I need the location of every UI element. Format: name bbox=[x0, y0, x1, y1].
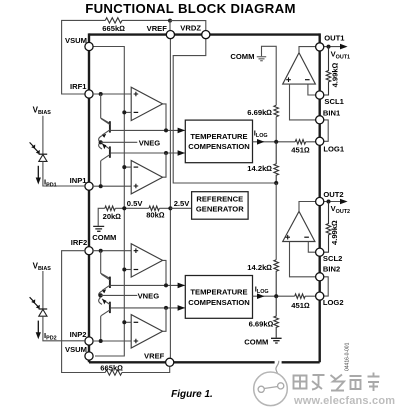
resistor R 14.2k (2) bbox=[274, 260, 279, 296]
svg-text:6.69kΩ: 6.69kΩ bbox=[247, 108, 272, 117]
chip outline bottom rail bbox=[89, 361, 320, 363]
node dot IRF1/Q1 collector bbox=[99, 92, 103, 96]
node dot INP1/Q2 collector bbox=[99, 184, 103, 188]
wire VRDZ down-left-down to intercept node bbox=[173, 39, 276, 183]
wire B2 output to OUT2 bbox=[299, 202, 316, 212]
watermark rail gap bbox=[275, 360, 282, 364]
svg-text:VSUM: VSUM bbox=[65, 345, 87, 354]
node dot 2.5V on VREF rail bbox=[168, 206, 172, 210]
svg-text:451Ω: 451Ω bbox=[291, 301, 310, 310]
pin BIN2 bbox=[316, 273, 324, 281]
pin VRDZ (top) bbox=[202, 30, 210, 38]
svg-text:FUNCTIONAL BLOCK DIAGRAM: FUNCTIONAL BLOCK DIAGRAM bbox=[85, 1, 296, 16]
svg-text:COMM: COMM bbox=[230, 52, 254, 61]
resistor R 6.69k (1) bbox=[274, 105, 279, 116]
wire 6.69k to ILOG1 node bbox=[275, 117, 277, 142]
wire VREF rail vertical 2.5V bbox=[169, 39, 171, 359]
wire IRF1 to top-left 665k loop bbox=[62, 20, 170, 94]
pin VSUM (top left) bbox=[85, 42, 93, 50]
wire ground2 up and 0.5V row bbox=[98, 208, 170, 226]
svg-text:BIN2: BIN2 bbox=[323, 265, 340, 274]
svg-text:14.2kΩ: 14.2kΩ bbox=[247, 263, 272, 272]
block temperature compensation 1 bbox=[185, 120, 252, 163]
current arrow IPD2 bbox=[37, 321, 39, 334]
watermark chinese text bbox=[294, 373, 380, 392]
wire COMM up-over-down to 6.69k 1 bbox=[262, 46, 277, 105]
resistor R 451 (1) bbox=[295, 140, 305, 145]
wire Q4 base to TC2 with node bbox=[111, 307, 185, 309]
wire A2 inverting input to VSUM rail bbox=[124, 166, 131, 168]
svg-text:IRF1: IRF1 bbox=[70, 82, 87, 91]
wire Q1 collector bbox=[101, 94, 110, 123]
wire VSUM rail: VSUM1 right, down, left to VSUM2 bbox=[93, 47, 124, 357]
wire A4 inverting input to VSUM rail bbox=[124, 321, 131, 323]
svg-text:VREF: VREF bbox=[144, 351, 165, 360]
svg-text:REFERENCE: REFERENCE bbox=[196, 195, 243, 204]
light arrows PD2 bbox=[30, 297, 39, 307]
svg-text:665kΩ: 665kΩ bbox=[100, 364, 123, 373]
wire ILOG2 from TC2 to LOG2 bbox=[253, 295, 316, 297]
wire 2.5V to reference generator bbox=[170, 207, 191, 209]
svg-text:SCL1: SCL1 bbox=[324, 97, 344, 106]
node dot A3 minus on VSUM rail bbox=[122, 268, 126, 272]
svg-text:COMM: COMM bbox=[244, 337, 268, 346]
emitter arcs to VNEG node bbox=[99, 136, 102, 149]
resistor R 665k (top) bbox=[105, 18, 122, 23]
wire A3 inverting input to VSUM rail bbox=[124, 269, 131, 271]
svg-text:TEMPERATURE: TEMPERATURE bbox=[190, 132, 247, 141]
current arrow IPD1 bbox=[37, 166, 39, 179]
svg-text:LOG2: LOG2 bbox=[323, 298, 344, 307]
wire IRF2 to A3 + input bbox=[93, 250, 131, 252]
resistor R 665k (bottom) bbox=[105, 370, 122, 375]
transistor Q2 bbox=[109, 146, 111, 157]
resistor R 20k bbox=[105, 206, 115, 211]
svg-text:04416-0-001: 04416-0-001 bbox=[345, 342, 351, 371]
svg-text:Figure 1.: Figure 1. bbox=[171, 389, 213, 400]
watermark logo tail bbox=[276, 361, 279, 375]
node dot INP2/Q4 collector bbox=[99, 339, 103, 343]
block temperature compensation 2 bbox=[185, 276, 252, 319]
svg-text:INP1: INP1 bbox=[70, 176, 88, 185]
pin OUT1 bbox=[316, 43, 324, 51]
resistor R 14.2k (1) bbox=[274, 142, 279, 183]
wire A2 output up to Q2 base node bbox=[163, 153, 166, 177]
svg-text:GENERATOR: GENERATOR bbox=[196, 205, 244, 214]
wire B1 plus down to BIN1 bbox=[290, 84, 316, 120]
ground COMM (mid left) bbox=[93, 226, 104, 231]
loop BIN2 to LOG2 bbox=[324, 277, 328, 296]
wire A3 output down to Q3 base node bbox=[163, 260, 166, 285]
svg-text:4.99kΩ: 4.99kΩ bbox=[330, 220, 339, 245]
block reference generator bbox=[192, 192, 249, 220]
svg-text:20kΩ: 20kΩ bbox=[103, 212, 122, 221]
wire Q4 collector down to INP2 bbox=[100, 316, 103, 341]
pin INP1 bbox=[85, 182, 93, 190]
node dot A2 minus on VSUM rail bbox=[122, 165, 126, 169]
svg-text:VREF: VREF bbox=[147, 24, 168, 33]
pin INP2 bbox=[85, 337, 93, 345]
svg-text:IRF2: IRF2 bbox=[71, 238, 87, 247]
pin IRF2 bbox=[85, 247, 93, 255]
transistor Q1 bbox=[109, 121, 111, 132]
pin SCL1 bbox=[316, 91, 324, 99]
svg-text:665kΩ: 665kΩ bbox=[102, 24, 125, 33]
resistor R 451 (2) bbox=[295, 294, 305, 299]
svg-text:LOG1: LOG1 bbox=[323, 145, 344, 154]
wire INP1 to A2 + input bbox=[93, 185, 131, 187]
op-amp A2 bbox=[131, 161, 162, 194]
pin VREF (bottom) bbox=[166, 358, 174, 366]
svg-text:VRDZ: VRDZ bbox=[180, 24, 201, 33]
svg-text:www.elecfans.com: www.elecfans.com bbox=[293, 395, 395, 407]
wire dot to VREF pin bbox=[169, 21, 171, 31]
svg-text:VSUM: VSUM bbox=[65, 36, 87, 45]
svg-text:COMPENSATION: COMPENSATION bbox=[188, 142, 249, 151]
emitter arcs to VNEG node 2 bbox=[99, 291, 102, 304]
wire A1 inverting input to VSUM rail bbox=[124, 111, 131, 113]
wire Q2 base to TC1 with node bbox=[111, 152, 185, 154]
svg-text:COMPENSATION: COMPENSATION bbox=[188, 298, 249, 307]
wire VOUT2 arrow bbox=[324, 201, 342, 203]
resistor R 4.99k (1) bbox=[324, 47, 331, 95]
pin BIN1 bbox=[316, 116, 324, 124]
node dot VNEG1 bbox=[99, 140, 103, 144]
node dot ILOG2 bbox=[274, 294, 278, 298]
node dot A1 minus on VSUM rail bbox=[122, 110, 126, 114]
op-amp A4 bbox=[131, 315, 162, 348]
chip outline left rail bbox=[88, 33, 90, 362]
node dot 0.5V on VSUM rail bbox=[122, 206, 126, 210]
resistor R 80k bbox=[149, 206, 159, 211]
wire IRF2 left loop to bottom 665k and VREF2 bbox=[62, 251, 170, 373]
node dot ILOG1 bbox=[274, 140, 278, 144]
wire B2 plus down to BIN2 bbox=[290, 242, 316, 277]
pin VSUM (bottom left) bbox=[85, 352, 93, 360]
buffer op-amp B1 bbox=[283, 53, 316, 84]
op-amp A1 bbox=[131, 87, 162, 120]
buffer op-amp B2 bbox=[283, 211, 315, 241]
wire A1 output down to Q1 base node bbox=[163, 104, 166, 130]
wire intercept rail down bbox=[275, 183, 277, 260]
svg-text:INP2: INP2 bbox=[70, 330, 87, 339]
pin VREF (top) bbox=[166, 30, 174, 38]
svg-text:OUT2: OUT2 bbox=[323, 190, 343, 199]
svg-text:80kΩ: 80kΩ bbox=[146, 210, 165, 219]
loop BIN1 to LOG1 bbox=[324, 120, 328, 141]
svg-text:VNEG: VNEG bbox=[138, 292, 160, 301]
resistor R 6.69k (2) bbox=[274, 296, 279, 337]
node dot 665k/VREF/VRDZ bbox=[168, 19, 172, 23]
svg-text:VNEG: VNEG bbox=[139, 138, 161, 147]
chip outline top rail bbox=[89, 33, 320, 35]
svg-text:14.2kΩ: 14.2kΩ bbox=[247, 164, 272, 173]
transistor Q4 bbox=[109, 302, 111, 313]
svg-text:451Ω: 451Ω bbox=[291, 146, 310, 155]
wire INP2 to A4 + input bbox=[93, 340, 131, 342]
pin OUT2 bbox=[316, 197, 324, 205]
svg-text:SCL2: SCL2 bbox=[323, 254, 342, 263]
wire VNEG2 label lead bbox=[101, 294, 138, 296]
svg-text:BIN1: BIN1 bbox=[323, 108, 341, 117]
pin IRF1 bbox=[85, 90, 93, 98]
wire B1 minus down to SCL1 bbox=[308, 84, 316, 95]
node dot IRF2/Q3 collector bbox=[99, 249, 103, 253]
op-amp A3 bbox=[131, 244, 162, 277]
svg-text:OUT1: OUT1 bbox=[324, 33, 345, 42]
pin LOG1 bbox=[316, 137, 324, 145]
pin SCL2 bbox=[316, 248, 324, 256]
wire ILOG1 from TC1 to LOG1 bbox=[253, 141, 316, 143]
node dot VNEG2 bbox=[99, 293, 103, 297]
svg-text:2.5V: 2.5V bbox=[174, 199, 191, 208]
light arrows PD1 bbox=[30, 142, 39, 152]
wire B1 output to OUT1 bbox=[299, 47, 316, 53]
resistor R 4.99k (2) bbox=[324, 202, 331, 253]
svg-text:COMM: COMM bbox=[92, 233, 116, 242]
svg-text:TEMPERATURE: TEMPERATURE bbox=[190, 288, 247, 297]
wire Q3 base to TC2 with node bbox=[111, 284, 185, 286]
node dot A4 minus on VSUM rail bbox=[122, 320, 126, 324]
wire Q3 collector bbox=[101, 251, 110, 279]
svg-text:0.5V: 0.5V bbox=[127, 199, 144, 208]
watermark logo circle bbox=[254, 372, 288, 406]
chip outline right rail bbox=[319, 33, 321, 362]
transistor Q3 bbox=[109, 277, 111, 288]
wire B2 minus down to SCL2 bbox=[308, 242, 315, 253]
wire IRF1 to A1 + input bbox=[93, 93, 131, 95]
wire Q2 collector down to INP1 bbox=[100, 160, 103, 186]
wire Q1 base to TC1 with node bbox=[111, 129, 185, 131]
wire VOUT1 arrow bbox=[324, 46, 342, 48]
svg-text:4.99kΩ: 4.99kΩ bbox=[331, 62, 340, 87]
node dot intercept VRDZ bbox=[274, 181, 278, 185]
wire A4 output up to Q4 base node bbox=[163, 308, 166, 331]
wire VNEG1 label lead bbox=[101, 141, 138, 143]
pin LOG2 bbox=[316, 292, 324, 300]
svg-text:6.69kΩ: 6.69kΩ bbox=[249, 320, 274, 329]
wire dot to VRDZ pin bbox=[170, 21, 206, 31]
